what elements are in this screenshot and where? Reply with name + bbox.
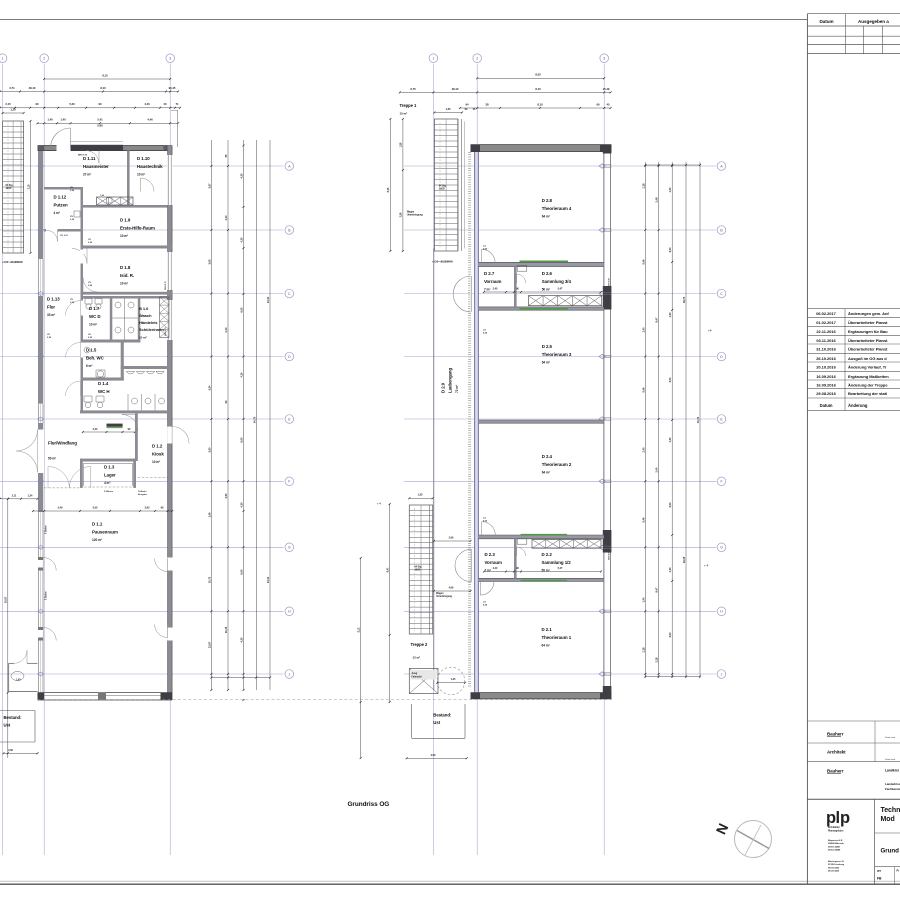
svg-text:5,49: 5,49 xyxy=(58,505,63,509)
dashed line windfang xyxy=(44,487,80,489)
svg-text:34,70: 34,70 xyxy=(696,416,700,423)
bottom wall band xyxy=(38,692,173,694)
svg-text:6,00: 6,00 xyxy=(240,569,244,574)
windfang exterior door arcs xyxy=(37,430,39,451)
wall band2 top xyxy=(478,535,603,539)
svg-text:5,60: 5,60 xyxy=(97,124,103,128)
svg-text:Theorieraum 1: Theorieraum 1 xyxy=(542,635,572,640)
title block grid xyxy=(807,720,900,722)
top wall door gap xyxy=(57,145,71,151)
svg-text:Daten eintr: Daten eintr xyxy=(885,736,895,739)
svg-text:1,58: 1,58 xyxy=(400,142,403,147)
svg-text:Vorraum: Vorraum xyxy=(484,279,502,284)
svg-text:8,10: 8,10 xyxy=(535,87,541,91)
svg-text:1,35: 1,35 xyxy=(418,493,423,497)
wc bottom wall xyxy=(80,410,168,413)
stair 2 (Treppe 2) xyxy=(409,505,432,634)
wall hausmeister-haustechnik xyxy=(127,151,130,207)
svg-text:Fachbereic: Fachbereic xyxy=(885,787,900,791)
svg-text:2: 2 xyxy=(476,57,478,61)
svg-text:19/25: 19/25 xyxy=(415,569,421,572)
right top dim row 1 xyxy=(477,77,604,79)
svg-text:1,40: 1,40 xyxy=(641,597,645,602)
svg-text:64 m²: 64 m² xyxy=(542,643,550,647)
svg-text:5 Stufen: 5 Stufen xyxy=(45,591,48,600)
svg-text:Treppe 1: Treppe 1 xyxy=(400,103,418,108)
svg-text:Planungsbüro: Planungsbüro xyxy=(828,829,844,832)
putzen bottom wall xyxy=(44,229,83,232)
svg-text:D 2.3: D 2.3 xyxy=(485,552,496,557)
svg-text:90: 90 xyxy=(596,102,600,106)
svg-text:Lager: Lager xyxy=(104,472,116,477)
svg-text:8,10: 8,10 xyxy=(100,86,106,90)
east wall door arc out xyxy=(171,427,173,444)
band1 dim xyxy=(484,291,601,293)
horizontal axis bubbles xyxy=(285,162,294,171)
band2 dim xyxy=(484,571,601,573)
svg-text:29.08.2016: 29.08.2016 xyxy=(816,391,836,396)
svg-text:4 m²: 4 m² xyxy=(54,211,60,215)
pausenraum top dim row xyxy=(33,510,172,512)
svg-text:3: 3 xyxy=(169,57,171,61)
left top dim row 4 xyxy=(38,122,179,124)
vwall band2 xyxy=(514,539,517,579)
svg-text:Laubengang: Laubengang xyxy=(448,368,453,393)
lager walls xyxy=(80,459,136,462)
hausmeister washbasin xyxy=(107,198,113,204)
stair 1 (Treppe 1) xyxy=(434,119,457,251)
svg-text:WC D: WC D xyxy=(89,314,101,319)
svg-text:Isid. R.: Isid. R. xyxy=(120,273,134,278)
svg-text:Ergänzung Maßketten: Ergänzung Maßketten xyxy=(848,374,889,379)
svg-text:90,45: 90,45 xyxy=(169,86,176,90)
svg-text:G: G xyxy=(288,546,291,550)
svg-text:10 m²: 10 m² xyxy=(120,234,128,238)
svg-text:1,35: 1,35 xyxy=(451,678,456,681)
corridor wall door gaps xyxy=(80,250,84,264)
svg-text:5,50: 5,50 xyxy=(207,447,211,452)
svg-text:Pausenraum: Pausenraum xyxy=(92,529,118,534)
left stair top dim xyxy=(3,112,24,114)
wc h fixtures xyxy=(84,396,92,402)
east wall window bands xyxy=(167,155,172,205)
west wall pier e xyxy=(38,423,43,430)
svg-text:5,34: 5,34 xyxy=(207,385,211,390)
svg-text:90: 90 xyxy=(35,102,39,106)
band1 door arc up xyxy=(481,249,483,263)
svg-text:Ust: Ust xyxy=(433,720,440,725)
north arrow circle xyxy=(735,821,772,858)
svg-text:6,00: 6,00 xyxy=(668,502,672,507)
east wall xyxy=(168,146,173,701)
top entrance door arc xyxy=(70,128,72,148)
svg-text:6,00: 6,00 xyxy=(240,437,244,442)
svg-text:4,40: 4,40 xyxy=(144,102,150,106)
svg-text:Grund: Grund xyxy=(881,848,900,855)
svg-text:15,49: 15,49 xyxy=(603,87,610,91)
svg-text:Landwirtsc: Landwirtsc xyxy=(885,782,900,786)
svg-text:4,30: 4,30 xyxy=(240,372,244,377)
svg-text:19/25: 19/25 xyxy=(6,187,12,190)
vertical axis lines xyxy=(2,64,4,855)
sheet bottom border thin xyxy=(0,880,900,882)
svg-text:D 2.1: D 2.1 xyxy=(542,627,553,632)
right top wall xyxy=(471,145,612,152)
svg-text:Landkrei: Landkrei xyxy=(885,769,899,773)
svg-text:2,40: 2,40 xyxy=(93,428,98,431)
svg-text:6 m²: 6 m² xyxy=(86,364,92,368)
svg-text:Architekt: Architekt xyxy=(827,750,846,755)
svg-text:D 2.8: D 2.8 xyxy=(542,198,553,203)
svg-text:Überarbeiteter Planst: Überarbeiteter Planst xyxy=(848,320,888,325)
svg-text:LG: LG xyxy=(483,246,486,248)
svg-text:Sammlung 3/4: Sammlung 3/4 xyxy=(542,279,572,284)
stair2 dim lines xyxy=(389,504,391,702)
svg-text:WC H: WC H xyxy=(98,389,110,394)
svg-text:4,50: 4,50 xyxy=(8,748,13,752)
svg-text:05131 5433: 05131 5433 xyxy=(828,870,840,873)
svg-text:4,30: 4,30 xyxy=(240,173,244,178)
svg-text:D 2.4: D 2.4 xyxy=(542,454,553,459)
shelf row hausmeister xyxy=(97,197,134,205)
svg-text:3,50: 3,50 xyxy=(224,493,228,498)
svg-text:10,97: 10,97 xyxy=(4,596,8,603)
svg-text:2: 2 xyxy=(43,57,45,61)
bestand dim right xyxy=(407,757,467,759)
svg-text:4,30: 4,30 xyxy=(668,437,672,442)
svg-text:BRH 0,75: BRH 0,75 xyxy=(165,326,167,336)
svg-text:4,30: 4,30 xyxy=(668,567,672,572)
svg-text:10,70: 10,70 xyxy=(207,576,211,583)
bestand box left xyxy=(0,710,35,712)
north arrow needle xyxy=(737,831,769,849)
svg-text:5,47: 5,47 xyxy=(558,288,563,291)
svg-text:+4,50=+98,88MHN: +4,50=+98,88MHN xyxy=(2,261,23,264)
svg-text:26.10.2016: 26.10.2016 xyxy=(816,356,836,361)
svg-text:FB: FB xyxy=(877,877,882,881)
west wall pier f xyxy=(38,473,43,512)
axis diamonds left west wall xyxy=(38,164,44,168)
svg-text:2,15: 2,15 xyxy=(5,102,11,106)
windfang inner double door xyxy=(47,467,49,488)
svg-text:Ausgabe: Ausgabe xyxy=(138,493,148,496)
right west wall xyxy=(475,145,479,697)
laubengang railing band xyxy=(468,152,471,688)
vwall band1 xyxy=(514,267,517,307)
svg-text:4,46: 4,46 xyxy=(147,118,153,122)
svg-text:24,30: 24,30 xyxy=(266,296,270,303)
svg-text:3,15: 3,15 xyxy=(27,184,30,189)
horizontal axis lines xyxy=(0,165,284,167)
svg-text:6,75: 6,75 xyxy=(410,87,416,91)
svg-text:Bestand:: Bestand: xyxy=(4,715,23,720)
svg-text:Ust: Ust xyxy=(4,723,11,728)
svg-text:13,40: 13,40 xyxy=(266,576,270,583)
top wall xyxy=(38,146,173,151)
svg-text:1,40: 1,40 xyxy=(47,118,53,122)
svg-text:120 m²: 120 m² xyxy=(92,538,102,542)
svg-text:Daten eintr: Daten eintr xyxy=(885,758,895,761)
svg-text:5,41: 5,41 xyxy=(97,118,103,122)
svg-text:64 m²: 64 m² xyxy=(542,470,550,474)
treppe1 top dim xyxy=(434,112,462,114)
svg-text:Haustechnik: Haustechnik xyxy=(137,164,163,169)
svg-text:Kiosk: Kiosk xyxy=(152,451,164,456)
svg-text:5,47: 5,47 xyxy=(558,567,563,570)
erste-hilfe door arc xyxy=(86,249,88,264)
band2 door arc up xyxy=(481,522,483,536)
svg-text:Überarbeiteter Planst: Überarbeiteter Planst xyxy=(848,347,888,352)
svg-text:1,90: 1,90 xyxy=(16,679,21,682)
svg-text:Datum: Datum xyxy=(819,19,833,24)
svg-text:Flur: Flur xyxy=(47,304,55,309)
kiosk west wall xyxy=(135,413,138,461)
svg-text:Mod: Mod xyxy=(881,816,895,823)
stair west dim lines xyxy=(30,121,32,253)
svg-text:05161 34567: 05161 34567 xyxy=(828,845,841,848)
svg-text:D 1.5: D 1.5 xyxy=(86,348,97,353)
putzen sink xyxy=(74,211,80,217)
right bottom wall xyxy=(471,693,612,699)
east wall doors into pausenraum xyxy=(167,559,169,572)
svg-text:Hausmeister: Hausmeister xyxy=(83,164,109,169)
putzen right wall xyxy=(81,187,84,232)
svg-text:D 1.8: D 1.8 xyxy=(120,265,131,270)
band2 door arc down xyxy=(479,582,481,596)
east outer line xyxy=(176,110,178,147)
wc top wall xyxy=(82,296,168,299)
svg-text:2,40: 2,40 xyxy=(493,567,498,570)
svg-text:Techn: Techn xyxy=(881,807,900,814)
svg-text:5,20: 5,20 xyxy=(69,102,75,106)
svg-text:3,98: 3,98 xyxy=(400,212,403,217)
wc wall v3 xyxy=(121,343,124,381)
svg-text:+4: +4 xyxy=(708,329,712,333)
svg-text:Unterbringung: Unterbringung xyxy=(436,595,453,598)
svg-text:Bestand:: Bestand: xyxy=(433,713,452,718)
svg-text:05161 34568: 05161 34568 xyxy=(828,849,841,852)
svg-text:F: F xyxy=(288,480,290,484)
svg-text:1,40: 1,40 xyxy=(641,327,645,332)
left top dim row 2 xyxy=(0,91,178,93)
svg-text:48,10: 48,10 xyxy=(29,86,36,90)
far-left vertical dim xyxy=(7,499,9,758)
svg-text:40: 40 xyxy=(163,102,167,106)
aufzug box xyxy=(409,669,438,694)
right top dim row 2 xyxy=(400,91,611,93)
svg-text:8,10: 8,10 xyxy=(537,102,543,106)
svg-text:Änderungen gem. Anf: Änderungen gem. Anf xyxy=(848,311,889,316)
svg-text:2,28: 2,28 xyxy=(655,657,659,662)
svg-text:5,05: 5,05 xyxy=(207,259,211,264)
svg-text:4,66: 4,66 xyxy=(449,586,454,589)
svg-text:D 1.10: D 1.10 xyxy=(137,156,150,161)
svg-text:Änderung der Treppe: Änderung der Treppe xyxy=(848,383,888,388)
svg-text:8,41: 8,41 xyxy=(387,567,390,572)
svg-text:Beh. WC: Beh. WC xyxy=(86,355,105,360)
svg-text:+4,50=+98,88MHN: +4,50=+98,88MHN xyxy=(432,260,453,263)
wc mid wall xyxy=(81,340,141,343)
svg-text:8,55: 8,55 xyxy=(535,73,541,77)
svg-text:4 m²: 4 m² xyxy=(104,481,110,485)
right dim top ticks xyxy=(645,164,700,166)
svg-text:Unterbringung: Unterbringung xyxy=(407,214,424,217)
top wall dark segment xyxy=(71,145,124,151)
svg-text:10 m²: 10 m² xyxy=(89,322,97,326)
svg-text:22.11.2016: 22.11.2016 xyxy=(816,329,836,334)
bottom-left room xyxy=(8,663,10,691)
stair2 top dim xyxy=(409,497,432,499)
svg-text:Theorieraum 2: Theorieraum 2 xyxy=(542,462,572,467)
svg-text:45: 45 xyxy=(606,102,610,106)
svg-text:D 1.9: D 1.9 xyxy=(120,218,131,223)
svg-text:8,12: 8,12 xyxy=(358,627,361,632)
svg-text:Vorraum: Vorraum xyxy=(485,560,503,565)
svg-text:Theorieraum 3: Theorieraum 3 xyxy=(542,352,572,357)
svg-text:8,46: 8,46 xyxy=(387,187,390,192)
svg-text:BRH 0,75: BRH 0,75 xyxy=(165,280,167,290)
svg-text:8,15: 8,15 xyxy=(102,73,108,77)
axis diamonds right building xyxy=(599,164,605,168)
vertical axis bubbles xyxy=(0,54,7,63)
svg-text:Sammlung 1/2: Sammlung 1/2 xyxy=(542,560,572,565)
top wall sill line xyxy=(71,141,124,143)
niche2 xyxy=(455,549,471,581)
svg-text:1,34: 1,34 xyxy=(28,494,33,497)
left dim column xyxy=(210,140,212,690)
left top dim row 3 xyxy=(0,107,180,109)
west wall glazing bands xyxy=(38,259,40,296)
svg-text:1: 1 xyxy=(2,57,4,61)
svg-text:D 2.6: D 2.6 xyxy=(542,271,553,276)
kiosk bottom dashed xyxy=(138,477,168,479)
svg-text:Magnusstr 8 E: Magnusstr 8 E xyxy=(828,839,843,842)
svg-text:3: 3 xyxy=(603,57,605,61)
left top dim row 1 xyxy=(44,78,170,80)
svg-text:Grundriss OG: Grundriss OG xyxy=(348,801,390,808)
svg-text:29664 Walsrode: 29664 Walsrode xyxy=(828,842,845,845)
bestand dim left xyxy=(4,752,38,754)
putzen door arc xyxy=(57,230,59,241)
svg-text:Ergänzungen für Bau: Ergänzungen für Bau xyxy=(848,329,888,334)
svg-text:Überarbeiteter Planst: Überarbeiteter Planst xyxy=(848,338,888,343)
svg-text:10 m²: 10 m² xyxy=(152,460,160,464)
svg-text:G: G xyxy=(720,546,723,550)
svg-text:06.02.2017: 06.02.2017 xyxy=(816,311,836,316)
svg-text:D 1.13: D 1.13 xyxy=(47,297,60,302)
svg-text:+ 4: + 4 xyxy=(704,564,708,568)
svg-text:1: 1 xyxy=(432,57,434,61)
svg-text:Änderung Vorlauf, Tr: Änderung Vorlauf, Tr xyxy=(848,365,887,370)
bestand box right xyxy=(411,704,413,738)
svg-text:D 1.11: D 1.11 xyxy=(83,156,96,161)
svg-text:Bauherr: Bauherr xyxy=(827,769,844,774)
svg-text:5,57: 5,57 xyxy=(207,183,211,188)
svg-text:D 2.5: D 2.5 xyxy=(542,344,553,349)
svg-text:2,40: 2,40 xyxy=(224,327,228,332)
svg-text:Flur/Windfang: Flur/Windfang xyxy=(48,441,77,446)
svg-text:D 2.9: D 2.9 xyxy=(441,382,446,393)
kiosk door arc xyxy=(122,414,138,416)
svg-text:5,50: 5,50 xyxy=(93,505,98,509)
svg-text:50 m²: 50 m² xyxy=(542,287,550,291)
wall band1 bottom xyxy=(478,307,603,310)
top wall corner blocks xyxy=(38,146,45,151)
svg-text:D 1.12: D 1.12 xyxy=(54,195,67,200)
svg-text:10,45: 10,45 xyxy=(224,626,228,633)
sink row xyxy=(127,371,135,374)
svg-text:64 m²: 64 m² xyxy=(542,214,550,218)
svg-text:27 m²: 27 m² xyxy=(83,172,91,176)
svg-text:2,18: 2,18 xyxy=(641,183,645,188)
pausenraum west doors xyxy=(42,558,44,571)
svg-text:38: 38 xyxy=(485,102,489,106)
svg-text:Ausg: Ausg xyxy=(412,672,418,675)
exterior stair west (Treppe) xyxy=(3,121,24,253)
counter dim xyxy=(83,431,135,433)
svg-text:1,35: 1,35 xyxy=(446,107,451,111)
svg-text:LG: LG xyxy=(483,330,486,332)
stair2 bottom dim xyxy=(437,682,465,684)
svg-text:03.11.2016: 03.11.2016 xyxy=(816,338,836,343)
wc stalls xyxy=(112,317,138,319)
svg-text:71: 71 xyxy=(175,102,179,106)
svg-text:20.10.2016: 20.10.2016 xyxy=(816,365,836,370)
west wall solid upper xyxy=(38,151,43,259)
svg-text:Putzen: Putzen xyxy=(54,202,68,207)
stair1 dim lines xyxy=(389,119,391,251)
svg-text:34,70: 34,70 xyxy=(252,416,256,423)
svg-text:Ausguß im OG aus d: Ausguß im OG aus d xyxy=(848,356,887,361)
svg-text:6,00: 6,00 xyxy=(240,307,244,312)
svg-text:19/25: 19/25 xyxy=(439,188,445,191)
counter ausgabe xyxy=(107,424,123,427)
svg-text:4,30: 4,30 xyxy=(240,637,244,642)
svg-text:F-Wärme: F-Wärme xyxy=(104,491,114,493)
svg-text:F: F xyxy=(720,480,722,484)
svg-text:1,20: 1,20 xyxy=(10,107,16,111)
sheet top border xyxy=(0,19,807,21)
svg-text:2,63: 2,63 xyxy=(145,505,150,509)
svg-text:01.02.2017: 01.02.2017 xyxy=(816,320,836,325)
wc wall h3 xyxy=(81,378,124,381)
vorraum1 door leafs xyxy=(470,276,472,312)
right east wall xyxy=(603,152,605,693)
svg-text:94: 94 xyxy=(465,102,469,106)
wall under d18 xyxy=(83,292,172,295)
svg-text:15 m²: 15 m² xyxy=(400,112,408,116)
band2 small box xyxy=(517,539,527,545)
svg-text:10 m²: 10 m² xyxy=(137,172,145,176)
svg-text:50 m²: 50 m² xyxy=(48,457,56,461)
svg-text:6,00: 6,00 xyxy=(668,247,672,252)
d18 door arc xyxy=(82,278,84,293)
svg-text:2,40: 2,40 xyxy=(493,288,498,291)
svg-text:90: 90 xyxy=(98,102,102,106)
svg-text:Fahrstuhl: Fahrstuhl xyxy=(412,675,422,678)
svg-text:1,40: 1,40 xyxy=(60,118,66,122)
bottom dashed exterior xyxy=(38,699,613,701)
wc cabinet xyxy=(160,297,170,338)
svg-text:05131 5432: 05131 5432 xyxy=(828,866,840,869)
svg-text:+ 4: + 4 xyxy=(377,502,381,506)
band1 shelf xyxy=(528,296,601,306)
svg-text:7 m²: 7 m² xyxy=(485,568,491,572)
corridor east wall xyxy=(81,232,84,411)
svg-text:D 1.7: D 1.7 xyxy=(89,306,100,311)
svg-text:10 m²: 10 m² xyxy=(120,281,128,285)
svg-text:Theorieraum 4: Theorieraum 4 xyxy=(542,206,572,211)
